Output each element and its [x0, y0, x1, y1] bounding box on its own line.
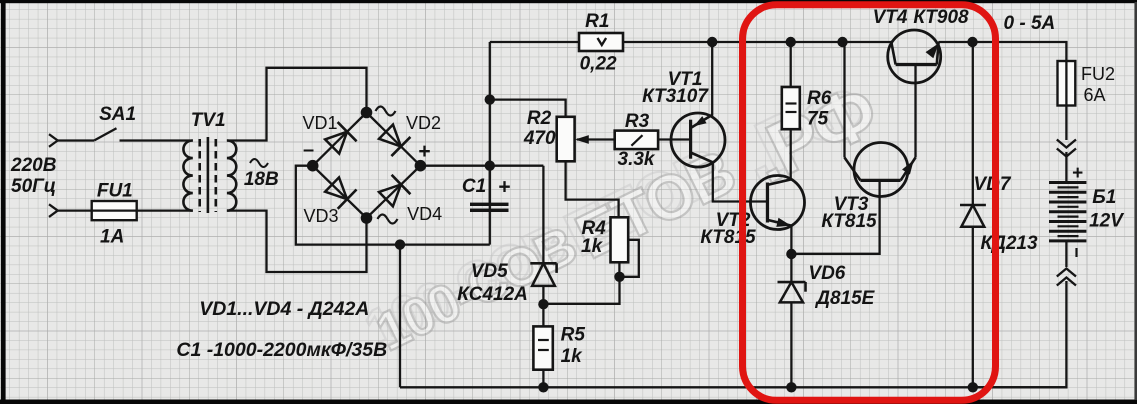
svg-text:+: +: [418, 140, 430, 163]
junction VD6 / bottom bus: [786, 382, 796, 392]
wire R4 wiper loop: [620, 240, 639, 277]
wire plus rail to VD5: [542, 166, 544, 264]
input terminal top (L): [49, 134, 58, 147]
svg-text:С1 -1000-2200мкФ/35В: С1 -1000-2200мкФ/35В: [176, 339, 387, 361]
svg-text:+: +: [1072, 163, 1083, 184]
svg-text:КД213: КД213: [980, 233, 1038, 254]
node minus output: [303, 139, 319, 172]
highlight box (red): [743, 5, 996, 401]
junction plus rail / R2 branch: [485, 94, 495, 104]
wire VD7 top lead: [972, 42, 974, 205]
svg-text:R2: R2: [527, 108, 552, 129]
wire R4 bottom: [618, 262, 620, 277]
wire R2 top lead: [490, 100, 566, 117]
svg-text:FU2: FU2: [1081, 64, 1115, 84]
wire R4 to VD5 junction: [543, 277, 619, 304]
transistor VT4: [873, 7, 969, 83]
fuse FU2: [1058, 61, 1116, 106]
wire plus rail to R1 riser: [420, 42, 579, 245]
label 220В 50Гц: [10, 155, 57, 197]
input terminal bottom (N): [49, 204, 58, 217]
wire input bottom: [58, 209, 92, 211]
junction plus rail / C1: [485, 161, 495, 171]
diode VD4: [379, 175, 442, 224]
wire battery minus: [1065, 241, 1067, 267]
note C1 capacitance: [176, 339, 387, 361]
wire secondary top to bridge AC top: [227, 68, 367, 141]
svg-text:50Гц: 50Гц: [11, 176, 56, 197]
wire input top: [58, 139, 94, 141]
fuse FU1: [92, 181, 137, 248]
junction minus rail corner: [395, 239, 405, 249]
svg-text:1k: 1k: [581, 236, 604, 257]
svg-text:6A: 6A: [1084, 85, 1106, 105]
connector (arrows down): [1057, 140, 1076, 157]
svg-text:VD2: VD2: [406, 113, 441, 133]
node plus output: [415, 140, 431, 172]
svg-text:VD1...VD4 - Д242А: VD1...VD4 - Д242А: [199, 298, 369, 320]
wire bottom bus: [400, 386, 1066, 388]
junction top rail / VT1 emitter: [707, 37, 717, 47]
svg-text:КТ908: КТ908: [913, 7, 969, 28]
battery Б1 12V: [1049, 163, 1124, 257]
potentiometer R2: [523, 108, 575, 161]
svg-text:R1: R1: [585, 11, 609, 32]
resistor R4: [581, 217, 628, 262]
junction top rail / R6: [786, 37, 796, 47]
wire to VT3 base: [791, 180, 879, 253]
transistor VT1: [642, 69, 725, 167]
svg-text:VT4: VT4: [873, 7, 908, 28]
svg-text:VD5: VD5: [471, 261, 508, 282]
wire VD5 junction to R5: [542, 304, 544, 326]
wire VT3 collector to top rail: [843, 42, 845, 158]
wire switch to transformer: [120, 139, 193, 141]
junction VD5 / R4 / R5: [538, 299, 548, 309]
wire top rail (R1 to VT4 collector): [623, 41, 891, 43]
svg-text:1А: 1А: [100, 227, 124, 248]
svg-text:SA1: SA1: [99, 104, 136, 125]
wire VT1 collector to VT2 base: [713, 162, 768, 201]
zener diode VD6: [778, 263, 876, 309]
wire bridge branches: [313, 113, 421, 219]
svg-text:Б1: Б1: [1092, 187, 1116, 208]
switch SA1: [94, 104, 136, 141]
svg-text:С1: С1: [462, 176, 486, 197]
transistor VT3: [821, 143, 915, 233]
wire top rail right (VT4 emitter to FU2): [938, 42, 1066, 61]
svg-text:3.3k: 3.3k: [618, 149, 656, 170]
svg-text:470: 470: [523, 128, 556, 149]
zener diode VD5: [457, 261, 556, 305]
capacitor C1: [462, 176, 511, 213]
svg-text:R3: R3: [625, 111, 650, 132]
svg-text:1k: 1k: [561, 346, 584, 367]
diode VD2: [379, 113, 441, 156]
wire R6 bottom to VT2 collector: [790, 129, 793, 180]
svg-text:КТ815: КТ815: [700, 227, 756, 248]
junction R5 / bottom bus: [538, 382, 548, 392]
diode VD1: [302, 113, 356, 154]
svg-text:R6: R6: [807, 88, 832, 109]
svg-text:18В: 18В: [244, 169, 279, 190]
node AC top (~): [361, 107, 396, 119]
svg-text:VD6: VD6: [808, 263, 845, 284]
svg-text:220В: 220В: [10, 155, 57, 176]
resistor R5: [533, 325, 585, 370]
wire connector to battery: [1065, 152, 1067, 183]
wire battery to bottom bus: [973, 281, 1067, 387]
resistor R6: [782, 87, 832, 130]
wire fuse to transformer: [137, 209, 193, 211]
resistor R3: [615, 111, 658, 170]
wire R3 to VT1 base: [658, 138, 691, 140]
svg-text:FU1: FU1: [97, 181, 133, 202]
junction VT2 emitter / VT3 base / VD6: [786, 249, 796, 259]
diode VD7: [960, 174, 1038, 254]
svg-text:R5: R5: [561, 325, 586, 346]
wire FU2 to connector: [1065, 106, 1067, 141]
resistor R1: [579, 11, 623, 75]
wire R2 wiper to R3: [577, 136, 615, 143]
label 0 - 5А: [1004, 13, 1056, 34]
transistor VT2: [700, 176, 804, 249]
svg-text:TV1: TV1: [191, 110, 226, 131]
junction top rail / VD7: [967, 37, 977, 47]
svg-text:+: +: [498, 176, 510, 199]
svg-text:КС412А: КС412А: [457, 284, 528, 305]
svg-text:0,22: 0,22: [580, 54, 617, 75]
svg-text:КТ815: КТ815: [821, 211, 877, 232]
wire VT1 emitter to top rail: [711, 42, 713, 115]
junction VD7 / bottom bus: [968, 382, 978, 392]
svg-text:–: –: [303, 139, 314, 161]
svg-text:12V: 12V: [1089, 211, 1124, 232]
note VD1...VD4 diode type: [199, 298, 369, 320]
svg-text:VD1: VD1: [302, 113, 337, 133]
junction R4 bottom / wiper: [614, 272, 624, 282]
transformer TV1: [183, 110, 279, 213]
svg-text:75: 75: [807, 109, 829, 130]
wire R2 bottom to R4 top: [566, 161, 619, 217]
wire VT3 emitter to VT4 base: [914, 65, 916, 158]
svg-text:Д815Е: Д815Е: [814, 288, 875, 309]
wire VT2 emitter down: [790, 226, 792, 254]
wire secondary bottom to bridge AC bottom: [227, 211, 367, 272]
junction top rail / VT3 collector: [837, 37, 847, 47]
node AC bottom (~): [361, 212, 398, 224]
connector (arrows up): [1057, 269, 1076, 286]
wire R5 to bottom bus: [542, 370, 544, 388]
diode VD3: [303, 177, 356, 226]
wire VT2 emitter node to VD6: [790, 254, 792, 282]
svg-text:VD4: VD4: [407, 204, 442, 224]
svg-text:VD3: VD3: [303, 206, 338, 226]
wire R6 top lead: [790, 42, 792, 87]
svg-text:КТ3107: КТ3107: [642, 86, 709, 107]
wire VD7 to bottom bus: [972, 227, 974, 387]
svg-text:0 - 5А: 0 - 5А: [1004, 13, 1056, 34]
wire VD6 to bottom bus: [790, 302, 792, 387]
wire minus rail: [296, 166, 490, 388]
